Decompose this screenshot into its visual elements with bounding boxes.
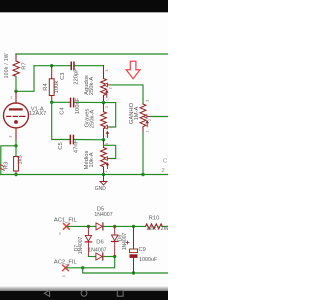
- cursor arrow (red download arrow): [126, 61, 140, 78]
- svg-text:R4: R4: [43, 83, 49, 91]
- wiper arrow Agudos: [104, 83, 111, 97]
- svg-text:1M-A: 1M-A: [134, 106, 140, 120]
- svg-text:R10: R10: [149, 216, 160, 222]
- wire Medios wiper loop: [104, 145, 116, 158]
- svg-text:220pF: 220pF: [74, 68, 80, 85]
- nav back icon: [44, 290, 49, 296]
- svg-text:C9: C9: [139, 247, 146, 253]
- svg-text:3: 3: [105, 143, 109, 145]
- capacitor C4: [70, 98, 75, 108]
- capacitor C9: [126, 226, 138, 273]
- svg-text:1: 1: [145, 130, 149, 132]
- nav bar (bottom): [0, 287, 168, 300]
- node R3 at rail: [14, 173, 17, 176]
- potentiometer Graves 250k-A: [101, 103, 107, 140]
- node C9 bottom: [132, 271, 135, 274]
- nav recents icon: [117, 290, 123, 296]
- potentiometer GANHO 1M-A: [140, 99, 146, 132]
- svg-text:2: 2: [162, 168, 165, 174]
- wire cathode line left: [1, 146, 16, 175]
- svg-text:12AX7: 12AX7: [29, 111, 46, 117]
- svg-text:3: 3: [105, 106, 109, 108]
- wire H1 mid: [103, 225, 145, 227]
- svg-text:AC2_FIL: AC2_FIL: [54, 259, 78, 265]
- wiper arrow Medios: [104, 157, 110, 169]
- node Graves bottom: [102, 138, 105, 141]
- svg-text:1: 1: [11, 95, 13, 99]
- capacitor C5: [70, 135, 75, 145]
- svg-text:100k: 100k: [54, 81, 60, 94]
- svg-text:100nF: 100nF: [75, 97, 81, 114]
- svg-text:1N4007: 1N4007: [94, 212, 112, 218]
- resistor R10: [146, 224, 163, 229]
- svg-text:D6: D6: [96, 240, 103, 246]
- status bar (top black): [0, 0, 168, 12]
- wire C4 line: [52, 101, 70, 103]
- node AC2 jog: [81, 266, 84, 269]
- svg-text:ac: ac: [57, 231, 61, 235]
- svg-text:3: 3: [145, 100, 149, 102]
- node GANHO at rail: [141, 173, 144, 176]
- resistor R4: [49, 66, 54, 103]
- svg-text:1: 1: [105, 135, 109, 137]
- svg-text:47nF: 47nF: [73, 139, 79, 153]
- wire Agudos wiper to GANHO: [111, 85, 143, 99]
- ground GND: [103, 175, 105, 182]
- svg-text:C: C: [163, 159, 167, 165]
- svg-text:3: 3: [105, 69, 109, 71]
- diode D8: [112, 226, 118, 256]
- svg-text:100k / 1W: 100k / 1W: [4, 53, 10, 78]
- svg-text:AC1_FIL: AC1_FIL: [54, 218, 78, 224]
- wire R7 to plate node: [15, 77, 17, 92]
- potentiometer Medios 10k-A: [101, 140, 107, 175]
- svg-text:1N4007: 1N4007: [122, 233, 128, 251]
- svg-text:1000uF: 1000uF: [139, 257, 158, 263]
- svg-text:R7: R7: [22, 62, 28, 69]
- wire H1: [67, 225, 96, 227]
- svg-text:1N4007: 1N4007: [78, 237, 84, 255]
- svg-text:R3: R3: [4, 162, 10, 169]
- node tone stack mid: [102, 101, 105, 104]
- svg-text:2: 2: [108, 87, 112, 89]
- capacitor C3: [71, 62, 75, 71]
- svg-text:GND: GND: [95, 186, 107, 192]
- svg-text:1N4007: 1N4007: [88, 248, 106, 254]
- resistor R3: [14, 146, 19, 175]
- svg-text:12R / 2W: 12R / 2W: [146, 226, 168, 232]
- node R4 top: [50, 64, 53, 67]
- svg-text:ac: ac: [62, 274, 66, 278]
- wiper arrow GANHO: [144, 115, 151, 127]
- svg-text:250k-A: 250k-A: [89, 77, 95, 96]
- svg-text:2: 2: [148, 119, 152, 121]
- node H2 right: [113, 255, 116, 258]
- node cathode: [14, 144, 17, 147]
- svg-text:1: 1: [104, 170, 108, 172]
- tube V1-A 12AX7: [4, 91, 29, 140]
- diode D7: [85, 226, 91, 256]
- resistor R7: [13, 54, 19, 77]
- node plate junction: [14, 90, 17, 93]
- wire ground rail: [1, 174, 168, 176]
- wire C5 drop: [52, 102, 70, 139]
- diode D5: [96, 223, 103, 230]
- nav home icon: [81, 290, 87, 296]
- node C9 top: [132, 225, 135, 228]
- svg-text:C3: C3: [60, 72, 66, 79]
- wire Graves wiper loop: [104, 103, 116, 127]
- svg-text:1: 1: [106, 99, 110, 101]
- node D7 top: [87, 225, 90, 228]
- diode D6: [96, 253, 103, 260]
- node R4 bottom: [50, 101, 53, 104]
- potentiometer Agudos 250k-A: [101, 66, 107, 103]
- wire fragment left edge (off-screen pot): [0, 164, 4, 170]
- svg-text:3: 3: [8, 135, 12, 137]
- svg-text:250k-A: 250k-A: [89, 110, 95, 129]
- node D8 top: [113, 225, 116, 228]
- wire AC2 line: [66, 257, 115, 268]
- svg-text:C5: C5: [58, 142, 64, 149]
- node Medios bottom / GND tap: [102, 173, 105, 176]
- wire GANHO wiper out: [151, 116, 169, 118]
- wiper arrow Graves: [104, 125, 110, 137]
- wire GANHO bottom to rail: [142, 132, 144, 174]
- wire H2: [88, 256, 96, 258]
- wire plate node to branch: [16, 66, 34, 92]
- wire bottom rail: [83, 268, 168, 273]
- svg-text:C4: C4: [60, 107, 66, 115]
- wire branch line: [34, 65, 71, 67]
- wire cathode: [15, 141, 17, 146]
- svg-text:10k-A: 10k-A: [89, 152, 95, 167]
- wire B+ top rail: [16, 53, 168, 55]
- svg-text:1k5: 1k5: [18, 155, 24, 164]
